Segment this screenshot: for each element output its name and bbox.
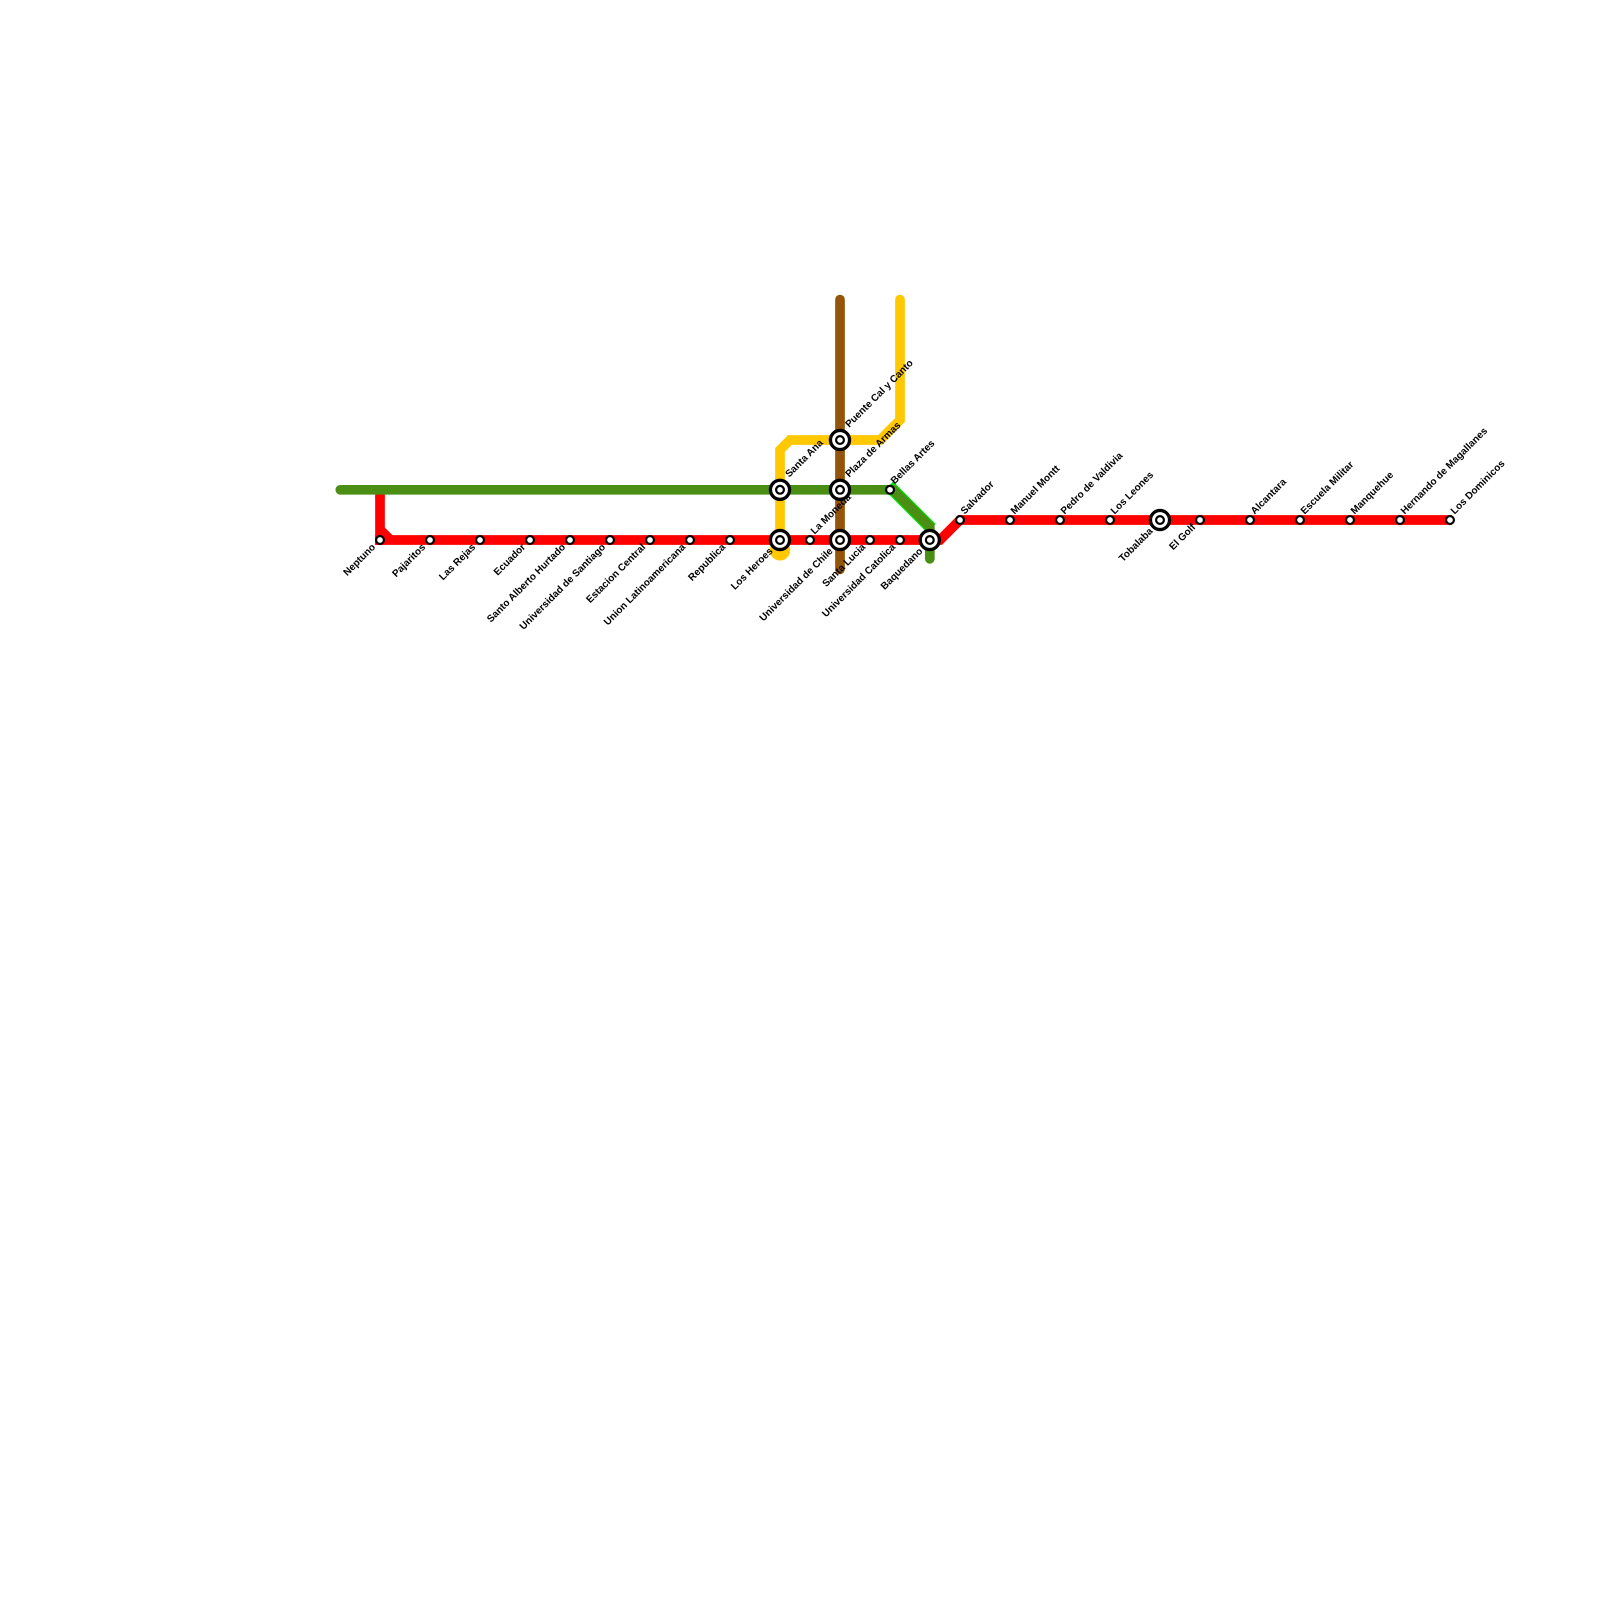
- yellow terminus disc at Los Heroes: [770, 540, 790, 560]
- station Manuel Montt: [1006, 516, 1014, 524]
- station La Moneda: [806, 536, 814, 544]
- station Hernando de Magallanes: [1396, 516, 1404, 524]
- stations: small: [376, 486, 1454, 544]
- station Las Rejas: [476, 536, 484, 544]
- interchange Santa Ana: [770, 480, 789, 499]
- station Alcantara: [1246, 516, 1254, 524]
- station Ecuador: [526, 536, 534, 544]
- station Union Latinoamericana: [686, 536, 694, 544]
- interchange Baquedano: [920, 530, 939, 549]
- brown line L3: [835, 300, 845, 570]
- interchange Puente Cal y Canto: [830, 430, 849, 449]
- interchange Universidad de Chile: [830, 530, 849, 549]
- station Estacion Central: [646, 536, 654, 544]
- red line L1 terminus stub at Neptuno: [375, 494, 385, 545]
- station Pajaritos: [426, 536, 434, 544]
- green line L5: [340, 490, 930, 559]
- station Bellas Artes: [886, 486, 894, 494]
- interchange Plaza de Armas: [830, 480, 849, 499]
- station Los Dominicos: [1446, 516, 1454, 524]
- labels: [342, 358, 1508, 632]
- lime underlay line: [889, 486, 932, 529]
- yellow line L2: [780, 300, 900, 548]
- station Salvador: [956, 516, 964, 524]
- station Universidad de Santiago: [606, 536, 614, 544]
- station Santa Lucia: [866, 536, 874, 544]
- red corner chamfer at Neptuno: [380, 529, 391, 540]
- red line L1 main path: [375, 520, 1452, 540]
- interchange Los Heroes: [770, 530, 789, 549]
- red line L1 stub rounded cap: [375, 492, 385, 502]
- station Neptuno: [376, 536, 384, 544]
- interchange Tobalaba: [1150, 510, 1169, 529]
- station Escuela Militar: [1296, 516, 1304, 524]
- station Republica: [726, 536, 734, 544]
- station Manquehue: [1346, 516, 1354, 524]
- station El Golf: [1196, 516, 1204, 524]
- station Santo Alberto Hurtado: [566, 536, 574, 544]
- station Los Leones: [1106, 516, 1114, 524]
- stations: interchanges (bullseye): [770, 430, 1169, 549]
- station Universidad Catolica: [896, 536, 904, 544]
- station Pedro de Valdivia: [1056, 516, 1064, 524]
